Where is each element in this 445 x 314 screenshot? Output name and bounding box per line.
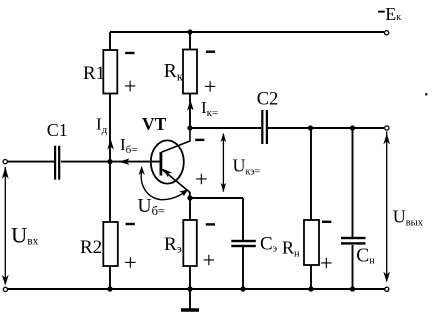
label -Ek [378, 11, 385, 13]
wire Ce top lead [242, 198, 244, 240]
capacitor Ce [231, 240, 256, 247]
polarity Uke minus [195, 139, 204, 141]
wire emitter node to Ce [190, 197, 243, 199]
wire emitter node to Re [189, 198, 191, 220]
junction collector rail Rn [308, 125, 313, 130]
resistor Rk [183, 50, 197, 94]
wire Re bottom to ground rail [189, 266, 191, 289]
svg-text:Iд: Iд [96, 115, 108, 137]
svg-text:C2: C2 [257, 90, 279, 110]
ground [181, 289, 199, 310]
svg-text:+: + [204, 74, 217, 99]
junction top rail Rk [187, 29, 192, 34]
arrow voltage Uke [221, 133, 227, 192]
junction ground rail Rn [308, 286, 313, 291]
svg-text:Rк: Rк [164, 61, 184, 84]
wire Ce bottom lead [242, 247, 244, 289]
wire base node to R2 top [109, 162, 111, 222]
svg-text:+: + [203, 247, 216, 272]
capacitor C1 [54, 146, 60, 180]
svg-text:VT: VT [142, 114, 167, 134]
terminal bottom left [3, 287, 7, 291]
noise dot [425, 93, 428, 96]
svg-text:+: + [124, 73, 137, 98]
arrow current Ik [187, 100, 194, 111]
terminal -Ek [385, 31, 389, 35]
junction ground rail Ce [240, 286, 245, 291]
wire base lead [110, 161, 160, 163]
wire bottom ground rail [8, 288, 385, 290]
capacitor Cn [341, 237, 366, 245]
transistor VT [151, 128, 190, 192]
svg-text:Rн: Rн [282, 238, 300, 260]
polarity R2 minus [126, 223, 135, 225]
wire top supply rail [110, 31, 384, 33]
resistor Rn [304, 220, 319, 265]
svg-text:Iк=: Iк= [201, 98, 218, 119]
wire R1 bottom lead to base node [109, 93, 111, 162]
svg-text:C1: C1 [47, 120, 68, 140]
node emitter [187, 195, 192, 200]
polarity R1 minus [125, 52, 134, 54]
svg-text:Uвх: Uвх [11, 223, 39, 248]
svg-text:Uкэ=: Uкэ= [233, 156, 261, 178]
terminal output bottom [385, 287, 389, 291]
terminal output top [385, 126, 389, 130]
wire collector rail [190, 127, 261, 129]
junction ground rail Cn [350, 286, 355, 291]
svg-text:Iб=: Iб= [120, 135, 137, 156]
node base [107, 159, 112, 164]
svg-text:Uвых: Uвых [393, 207, 424, 229]
wire Rn bottom lead [310, 265, 312, 289]
arrow voltage Uvx [2, 167, 9, 286]
arrow current Ib [119, 158, 130, 165]
svg-text:R1: R1 [83, 63, 105, 84]
svg-text:R2: R2 [80, 237, 102, 258]
wire Rn top lead [310, 128, 312, 220]
junction ground rail Re [187, 286, 192, 291]
capacitor C2 [261, 110, 268, 144]
resistor R2 [103, 222, 118, 266]
wire Cn bottom lead [352, 245, 354, 289]
resistor R1 [103, 50, 117, 94]
node collector [187, 125, 192, 130]
wire input lead [7, 161, 54, 163]
polarity Re minus [206, 223, 215, 225]
svg-text:+: + [320, 250, 333, 275]
svg-text:Cэ: Cэ [260, 234, 277, 255]
polarity Rk minus [206, 51, 215, 53]
arrow voltage Ub arc [139, 166, 189, 200]
wire emitter to node [189, 192, 191, 198]
wire Cn top lead [352, 128, 354, 237]
wire input to base node [61, 161, 110, 163]
wire Rk bottom lead to collector node [189, 93, 191, 128]
wire collector rail right of C2 [268, 127, 384, 129]
wire Rk top lead [189, 32, 191, 50]
wire R1 top lead [109, 32, 111, 51]
arrow voltage Uvyx [383, 132, 390, 283]
svg-text:+: + [195, 167, 208, 192]
svg-text:+: + [124, 250, 137, 275]
junction collector rail Cn [350, 125, 355, 130]
svg-text:Eк: Eк [385, 4, 401, 24]
svg-text:Cн: Cн [356, 246, 375, 267]
polarity Rn minus [322, 221, 331, 223]
resistor Re [183, 220, 197, 266]
junction ground rail R2 [107, 286, 112, 291]
wire R2 bottom to ground rail [109, 266, 111, 289]
terminal input [3, 160, 7, 164]
svg-text:Rэ: Rэ [164, 234, 182, 256]
arrow current Id [107, 139, 114, 150]
